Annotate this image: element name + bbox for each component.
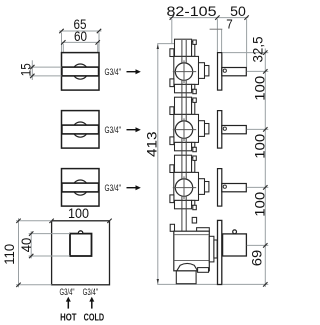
svg-text:100: 100: [68, 205, 89, 221]
lever bar H2: [62, 125, 99, 134]
dimension 65 extension lines: [62, 33, 100, 53]
extension line axis row2: [247, 128, 268, 130]
inlet stub row1: [175, 39, 192, 56]
extension line axis row1: [247, 70, 268, 72]
handle square H2: [62, 111, 100, 149]
mixer cartridge step 1: [209, 236, 214, 262]
dimension 40 extension lines: [29, 234, 70, 256]
outline box bottom edge: [157, 283, 217, 285]
outlet step row1: [192, 84, 195, 89]
outlet screw nub row1: [193, 89, 197, 93]
dimension 110 ticks: [16, 219, 20, 287]
mixer bracket tab: [170, 224, 174, 231]
bracket tab lower row2: [170, 137, 174, 145]
inner square (cartridge window): [70, 234, 92, 256]
outlet stub row2: [175, 142, 192, 150]
svg-text:G3/4": G3/4": [105, 183, 122, 194]
spindle row1: [222, 68, 247, 76]
top dimension ticks: [170, 15, 249, 19]
dimension 15 line: [31, 60, 33, 80]
mixer body seam lower: [174, 259, 210, 261]
lever bar H1: [62, 67, 99, 76]
handle square H3: [62, 169, 100, 207]
svg-text:100: 100: [251, 134, 267, 159]
svg-text:G3/4": G3/4": [60, 287, 75, 298]
bracket tab upper row3: [170, 165, 174, 173]
mixer side fitting: [198, 268, 209, 273]
arrow hot inlet: [66, 297, 71, 309]
outlet step row2: [192, 142, 195, 147]
dimension 40 line: [30, 231, 32, 258]
dimension 15 extension lines: [30, 67, 62, 76]
outlet stub row3: [175, 200, 192, 208]
handle circle H1: [73, 64, 88, 79]
bracket tab lower row1: [170, 79, 174, 87]
body block row2: [174, 114, 199, 142]
crosshair row2: [173, 118, 196, 141]
crosshair row3: [173, 176, 196, 199]
dimension 65 ticks: [59, 29, 101, 33]
neck 1 row2: [199, 121, 205, 137]
svg-text:32,5: 32,5: [250, 36, 266, 62]
neck 2 row3: [205, 182, 209, 192]
svg-text:G3/4": G3/4": [105, 125, 122, 136]
stub screw nub row2: [193, 98, 197, 102]
cartridge circle row3: [175, 179, 192, 196]
neck 1 row3: [199, 179, 205, 195]
bracket tab upper row2: [170, 107, 174, 115]
crosshair row1: [173, 60, 196, 83]
mixer handle screw: [233, 230, 237, 234]
mixer pipe screw nub: [192, 217, 196, 223]
stub screw nub row1: [193, 40, 197, 44]
outline box top edge: [157, 43, 180, 45]
stub step row1: [192, 42, 195, 57]
mixer outlet pipe: [176, 271, 196, 284]
handle circle H2: [73, 122, 88, 137]
svg-text:15: 15: [17, 63, 33, 76]
wall plate: [52, 221, 110, 285]
svg-text:413: 413: [144, 131, 160, 157]
dimension 110 line: [18, 218, 20, 287]
dimension 65 line: [59, 30, 101, 32]
svg-text:60: 60: [74, 28, 87, 44]
svg-text:100: 100: [251, 76, 267, 101]
arrow G3/4 row 1: [127, 69, 141, 74]
wall flange row3: [218, 169, 222, 207]
dimension 15 ticks: [30, 65, 34, 78]
spindle row2: [222, 126, 247, 134]
cartridge circle row1: [175, 63, 192, 80]
extension line axis mixer: [247, 244, 268, 246]
handle circle H3: [73, 180, 88, 195]
right chain dimension line: [264, 49, 266, 288]
vertical supply pipe segments: [182, 40, 186, 231]
handle square H1: [62, 53, 100, 91]
extension line body bottom: [222, 283, 268, 285]
stub step row3: [192, 158, 195, 173]
extension line axis row3: [247, 186, 268, 188]
svg-text:82-105: 82-105: [167, 3, 217, 19]
neck 2 row2: [205, 124, 209, 134]
outline box left edge / 413 dimension line: [157, 44, 159, 285]
svg-text:G3/4": G3/4": [83, 287, 98, 298]
svg-text:COLD: COLD: [84, 311, 105, 323]
413 arrow top: [157, 44, 159, 49]
spindle row3: [222, 184, 247, 192]
mixer body: [174, 231, 210, 271]
mixer body seam upper: [174, 234, 210, 236]
dimension 60 extension lines: [63, 44, 97, 53]
svg-text:G3/4": G3/4": [105, 67, 122, 78]
extension line handle tip: [246, 19, 248, 68]
wall flange row1: [218, 53, 222, 91]
svg-text:7: 7: [226, 17, 233, 32]
stub screw nub row3: [193, 156, 197, 160]
outlet step row3: [192, 200, 195, 205]
arrow G3/4 row 2: [127, 127, 141, 132]
spindle screw row1: [223, 69, 226, 72]
dimension 60 line: [61, 41, 100, 43]
spindle screw row2: [223, 127, 226, 130]
svg-text:100: 100: [251, 192, 267, 217]
mixer outlet dome: [177, 263, 198, 270]
cartridge circle row2: [175, 121, 192, 138]
screw notch on inner square: [78, 231, 82, 233]
inlet stub row3: [175, 155, 192, 172]
bracket tab upper row1: [170, 49, 174, 57]
inlet stub row2: [175, 97, 192, 114]
stub step row2: [192, 100, 195, 115]
spindle screw row3: [223, 185, 226, 188]
lever bar H3: [62, 183, 99, 192]
bottom wall plate (edge-on): [218, 220, 222, 284]
body block row1: [174, 56, 199, 84]
413 arrow bottom: [157, 279, 159, 284]
extension line flange top: [222, 52, 268, 54]
arrow cold inlet: [89, 297, 94, 309]
neck 2 row1: [205, 66, 209, 76]
right chain ticks: [263, 50, 267, 286]
dimension 100 ticks on plate top: [49, 219, 111, 223]
neck 1 row1: [199, 63, 205, 79]
wall flange row2: [218, 111, 222, 149]
top dimension line: [169, 17, 248, 19]
svg-text:40: 40: [18, 238, 34, 253]
svg-text:HOT: HOT: [60, 311, 77, 323]
outlet screw nub row2: [193, 147, 197, 151]
dimension 40 ticks: [29, 231, 33, 258]
svg-text:110: 110: [1, 244, 17, 265]
outlet stub row1: [175, 84, 192, 92]
extension line 82-105 left end: [171, 19, 173, 44]
dimension 60 ticks: [61, 40, 100, 44]
outlet screw nub row3: [193, 205, 197, 209]
arrow G3/4 row 3: [127, 185, 141, 190]
dimension 110 extension lines: [16, 221, 52, 285]
bracket tab lower row3: [170, 195, 174, 203]
extension line wall face: [216, 19, 218, 53]
mixer handle box: [223, 234, 247, 256]
dimension 7 leader line: [210, 28, 223, 30]
mixer top-right block: [197, 228, 210, 232]
svg-text:69: 69: [248, 250, 264, 267]
extension line flange back face: [221, 29, 223, 52]
body block row3: [174, 172, 199, 200]
mixer cartridge step 2: [214, 240, 217, 258]
